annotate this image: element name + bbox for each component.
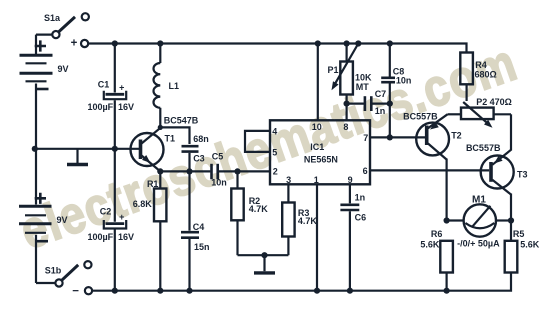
- svg-text:C7: C7: [375, 89, 387, 99]
- svg-text:1: 1: [314, 175, 319, 185]
- svg-text:4.7K: 4.7K: [249, 204, 269, 214]
- node M1 left junction: [444, 217, 450, 223]
- svg-text:10: 10: [312, 122, 322, 132]
- svg-text:6: 6: [363, 166, 368, 176]
- svg-text:T1: T1: [165, 134, 176, 144]
- resistor R4 680ohm: [460, 53, 496, 102]
- svg-text:7: 7: [363, 133, 368, 143]
- svg-text:+: +: [119, 212, 124, 222]
- wire bottom rail: [92, 273, 511, 291]
- svg-text:5.6K: 5.6K: [420, 239, 440, 249]
- wire T2 collector down: [446, 159, 448, 221]
- wire R2 R3 ground link: [238, 254, 289, 256]
- svg-text:C1: C1: [98, 80, 110, 90]
- wire pin1 to bottom rail: [316, 184, 318, 290]
- svg-text:BC557B: BC557B: [403, 112, 438, 122]
- wire pin7 to T2 base: [370, 136, 425, 138]
- node C3 bottom junction: [186, 168, 192, 174]
- node ground link junction: [261, 252, 267, 258]
- capacitor C1 100uF 16V: [87, 80, 134, 113]
- svg-text:1n: 1n: [355, 193, 366, 203]
- capacitor C2 100uF 16V: [87, 207, 134, 242]
- svg-text:10n: 10n: [211, 178, 227, 188]
- node emitter junction: [157, 168, 163, 174]
- svg-text:S1a: S1a: [44, 13, 61, 23]
- svg-text:16V: 16V: [118, 102, 134, 112]
- resistor R6 5.6K: [420, 229, 453, 291]
- capacitor C5 10n: [211, 152, 227, 188]
- svg-text:T2: T2: [451, 131, 462, 141]
- svg-text:8: 8: [343, 122, 348, 132]
- svg-text:9: 9: [348, 175, 353, 185]
- svg-text:C6: C6: [355, 213, 367, 223]
- ground symbol G1: [67, 149, 88, 165]
- node top rail junctions: [112, 40, 393, 46]
- node L1 collector junction: [158, 125, 163, 130]
- resistor R2 4.7K: [231, 171, 268, 255]
- resistor R1 6.8K: [133, 171, 167, 290]
- node P1 pin8 junction: [344, 101, 350, 107]
- svg-text:4.7K: 4.7K: [298, 216, 318, 226]
- svg-text:R6: R6: [431, 229, 443, 239]
- svg-text:+: +: [71, 38, 78, 50]
- svg-text:C3: C3: [193, 154, 205, 164]
- resistor R3 4.7K: [282, 184, 317, 255]
- node M1 right junction: [508, 217, 514, 223]
- svg-text:S1b: S1b: [45, 266, 62, 276]
- svg-text:4: 4: [272, 127, 277, 137]
- svg-text:BC557B: BC557B: [466, 143, 501, 153]
- svg-text:10n: 10n: [396, 75, 412, 85]
- svg-text:9V: 9V: [57, 215, 68, 225]
- svg-text:6.8K: 6.8K: [133, 199, 153, 209]
- svg-text:100µF: 100µF: [87, 232, 113, 242]
- capacitor C8 10n: [381, 44, 411, 138]
- wire T2 emitter to P2: [448, 113, 462, 115]
- svg-text:M1: M1: [472, 194, 486, 205]
- svg-text:16V: 16V: [118, 232, 134, 242]
- node bottom rail junctions: [112, 288, 450, 294]
- wire collector branch to C3: [160, 127, 189, 144]
- svg-text:5: 5: [272, 148, 277, 158]
- switch S1b: [36, 261, 92, 297]
- svg-text:C4: C4: [193, 222, 205, 232]
- svg-text:68n: 68n: [193, 134, 209, 144]
- capacitor C3 68n: [182, 134, 209, 171]
- capacitor C4 15n: [181, 171, 210, 290]
- battery B2 9V: [19, 149, 68, 283]
- capacitor C7 1n: [347, 89, 390, 116]
- wire pin6 to T3 base: [370, 169, 489, 171]
- wire emitter node line to IC pin2: [160, 170, 270, 172]
- svg-text:5.6K: 5.6K: [520, 239, 540, 249]
- svg-text:P1: P1: [327, 65, 338, 75]
- wire C1 C2 vertical branch: [114, 44, 116, 291]
- svg-text:9V: 9V: [58, 64, 69, 74]
- svg-text:−: −: [72, 286, 79, 298]
- svg-text:L1: L1: [169, 81, 180, 91]
- svg-text:C2: C2: [100, 207, 112, 217]
- capacitor C6 1n on pin9: [340, 184, 366, 290]
- svg-text:680Ω: 680Ω: [475, 69, 497, 79]
- switch S1a: [36, 13, 89, 56]
- watermark electroschematics.com: [14, 37, 524, 259]
- transistor T3 BC557B: [466, 143, 528, 195]
- svg-text:MT: MT: [356, 82, 369, 92]
- svg-text:15n: 15n: [194, 242, 210, 252]
- node C7 C8 junction: [387, 101, 393, 107]
- wire pin4 pin5 loop: [245, 131, 270, 152]
- node pin7 C8 junction: [387, 134, 393, 140]
- svg-text:R5: R5: [513, 229, 525, 239]
- svg-text:IC1: IC1: [310, 142, 324, 152]
- svg-text:3: 3: [286, 175, 291, 185]
- svg-text:470Ω: 470Ω: [490, 97, 512, 107]
- potentiometer P1 10K MT: [327, 44, 372, 121]
- ground symbol G2: [254, 255, 275, 273]
- svg-text:NE565N: NE565N: [304, 154, 338, 164]
- svg-text:P2: P2: [476, 97, 487, 107]
- wire mid 0V rail: [35, 148, 139, 150]
- transistor T2 BC557B: [403, 112, 462, 160]
- wire T3 collector down: [510, 194, 512, 221]
- op-amp IC1 NE565N box: [270, 120, 370, 185]
- meter M1: [447, 194, 511, 248]
- inductor L1: [153, 44, 179, 128]
- svg-text:T3: T3: [517, 170, 528, 180]
- svg-text:1n: 1n: [375, 106, 386, 116]
- svg-text:-/0/+ 50µA: -/0/+ 50µA: [457, 238, 500, 248]
- node R2 junction: [234, 168, 240, 174]
- potentiometer P2 470ohm: [461, 97, 512, 151]
- battery B1 9V: [20, 40, 69, 148]
- svg-text:C5: C5: [212, 152, 224, 162]
- svg-text:100µF: 100µF: [87, 102, 113, 112]
- svg-text:+: +: [119, 83, 124, 93]
- wire top supply rail: [88, 44, 466, 53]
- svg-text:R4: R4: [475, 60, 487, 70]
- node mid rail junctions: [32, 146, 118, 152]
- svg-text:2: 2: [273, 167, 278, 177]
- wire pin10 to rail: [317, 44, 319, 121]
- resistor R5 5.6K: [505, 221, 540, 273]
- svg-text:BC547B: BC547B: [164, 115, 199, 125]
- svg-text:R1: R1: [147, 179, 159, 189]
- transistor T1 BC547B: [131, 115, 199, 171]
